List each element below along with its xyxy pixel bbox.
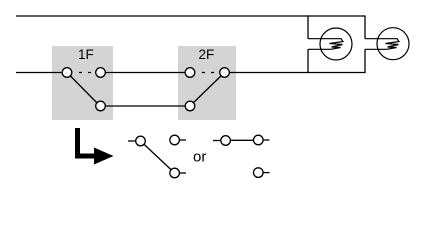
switch blade 1F: [67, 73, 100, 107]
alt1 stub right bottom: [180, 172, 187, 174]
wire top feed: [16, 15, 365, 17]
switch blade 2F: [190, 73, 225, 107]
alt2 stub left: [213, 140, 221, 142]
terminal 2F traveler bottom: [185, 101, 195, 111]
terminal 2F traveler top: [185, 68, 195, 78]
terminal 1F traveler top: [96, 68, 106, 78]
alt1 stub right top: [180, 139, 187, 141]
lamp box left edge upper: [307, 15, 309, 38]
alt2 terminal right top: [253, 135, 263, 145]
terminal 2F common: [220, 68, 230, 78]
svg-text:or: or: [193, 149, 206, 166]
wire 2F common to lamp box: [228, 72, 365, 74]
alt1 terminal right bottom: [170, 168, 180, 178]
lamp box right edge upper: [364, 15, 366, 38]
lamp box right edge lower: [364, 49, 366, 73]
alt2 terminal left: [221, 136, 231, 146]
alt1 stub left: [128, 140, 136, 142]
arrow: [75, 128, 114, 165]
lamp L1: [308, 28, 352, 60]
dashed alternate position 1F: [73, 72, 95, 74]
wire source to 1F common: [16, 72, 64, 74]
svg-text:1F: 1F: [78, 47, 94, 62]
terminal 1F traveler bottom: [96, 101, 106, 111]
dashed alternate position 2F: [196, 72, 219, 74]
terminal 1F common: [62, 68, 72, 78]
alt2 stub right top: [264, 139, 270, 141]
switch box 2F: [178, 46, 236, 120]
wire traveler top 1F to 2F: [104, 72, 186, 74]
alt2 stub bottom: [264, 172, 270, 174]
alt2 blade straight: [226, 139, 259, 141]
alt1 terminal left: [136, 136, 146, 146]
wire traveler bottom 1F to 2F: [104, 105, 187, 107]
alt1 terminal right top: [170, 135, 180, 145]
switch box 1F: [52, 46, 113, 120]
alt2 terminal bottom: [253, 168, 263, 178]
lamp L2: [365, 28, 409, 60]
alt1 blade crossed: [141, 141, 175, 173]
lamp box left edge lower: [307, 49, 309, 73]
svg-text:2F: 2F: [199, 47, 215, 62]
